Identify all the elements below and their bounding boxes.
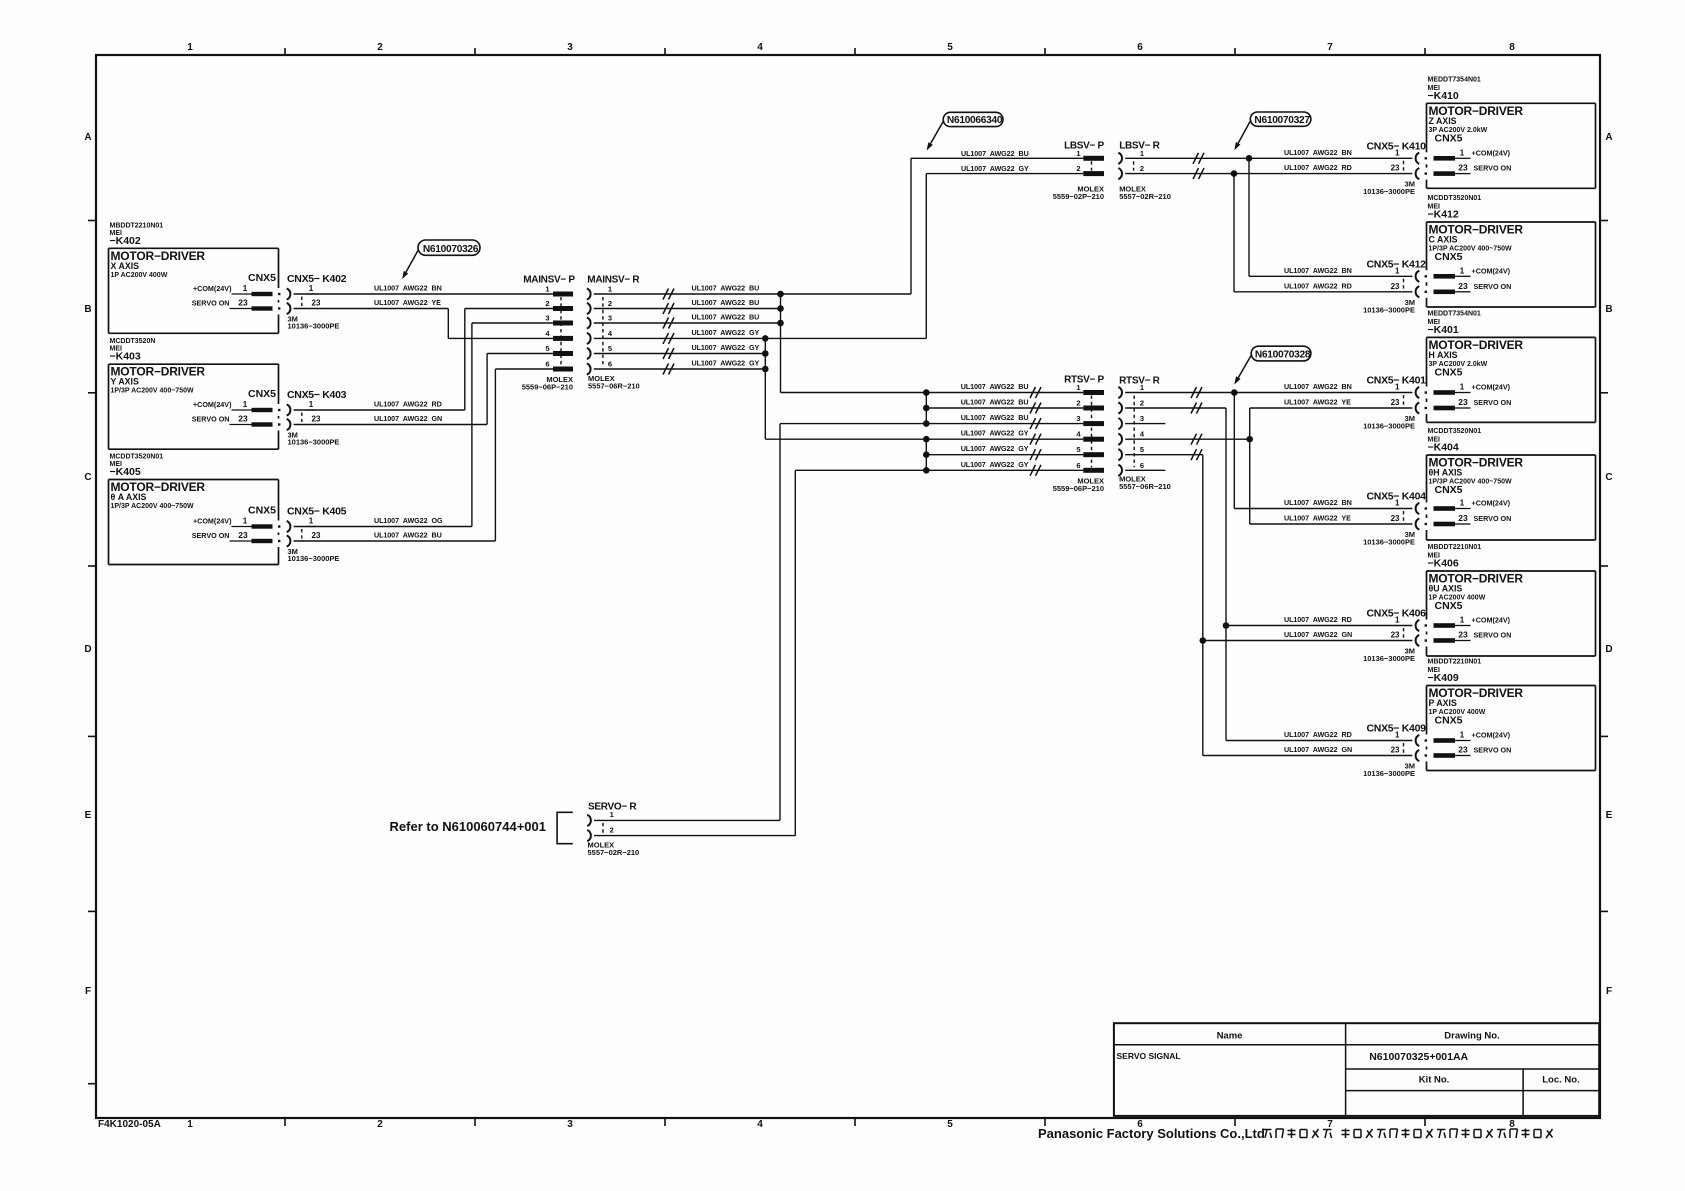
wire MAINSV-R pin3 BU to bus: [594, 313, 781, 329]
motor-driver K404 (θH AXIS): [1425, 428, 1596, 540]
svg-text:F4K1020-05A: F4K1020-05A: [98, 1119, 161, 1130]
svg-text:6: 6: [1137, 42, 1143, 53]
callout N610070327: [1234, 112, 1311, 150]
svg-text:MEDDT7354N01: MEDDT7354N01: [1428, 76, 1481, 83]
svg-text:6: 6: [608, 360, 612, 369]
svg-text:UL1007 AWG22 BU: UL1007 AWG22 BU: [961, 413, 1029, 422]
wire SERVO-R pin1 riser to RTSV-P pin3: [594, 424, 926, 821]
svg-text:2: 2: [1140, 399, 1144, 408]
svg-text:UL1007 AWG22 BN: UL1007 AWG22 BN: [1284, 266, 1352, 275]
svg-text:MBDDT2210N01: MBDDT2210N01: [110, 222, 164, 229]
svg-text:SERVO ON: SERVO ON: [1474, 164, 1512, 173]
svg-text:5557−06R−210: 5557−06R−210: [588, 382, 640, 391]
svg-text:UL1007 AWG22 GY: UL1007 AWG22 GY: [692, 359, 760, 368]
wire K402 pin1 BN to MAINSV-P pin1: [294, 284, 553, 295]
riser to LBSV-P pin1: [911, 149, 1083, 294]
bus GY vertical (MAINSV pins 4-6) and feed to RTSV-P pin4: [762, 335, 926, 439]
svg-text:A: A: [1605, 132, 1612, 143]
svg-text:3: 3: [545, 314, 549, 323]
connector CNX5-K405: [287, 506, 347, 564]
svg-text:4: 4: [757, 42, 763, 53]
svg-text:CNX5: CNX5: [1435, 715, 1463, 727]
svg-text:3: 3: [1076, 414, 1080, 423]
svg-text:θU AXIS: θU AXIS: [1429, 584, 1463, 594]
svg-text:+COM(24V): +COM(24V): [193, 400, 232, 409]
svg-text:Drawing No.: Drawing No.: [1444, 1030, 1499, 1041]
svg-text:UL1007 AWG22 GN: UL1007 AWG22 GN: [1284, 745, 1352, 754]
svg-text:C: C: [1605, 472, 1612, 483]
wire MAINSV-R pin2 BU to bus: [594, 298, 781, 314]
svg-text:CNX5: CNX5: [1435, 600, 1463, 612]
wire MAINSV-R pin5 GY to bus: [594, 343, 766, 359]
svg-text:1P/3P AC200V 400~750W: 1P/3P AC200V 400~750W: [111, 388, 194, 395]
svg-text:5: 5: [1076, 445, 1080, 454]
wire MAINSV-R pin1 BU to LBSV riser: [594, 284, 911, 300]
svg-text:+COM(24V): +COM(24V): [193, 517, 232, 526]
column reference numbers bottom: [187, 1118, 1515, 1130]
svg-text:UL1007 AWG22 BN: UL1007 AWG22 BN: [374, 284, 442, 293]
motor-driver K412 (C AXIS): [1425, 195, 1596, 307]
svg-text:1: 1: [243, 284, 248, 293]
svg-text:23: 23: [1458, 745, 1468, 755]
svg-text:5: 5: [545, 344, 549, 353]
svg-text:MEDDT7354N01: MEDDT7354N01: [1428, 310, 1481, 317]
svg-text:10136−3000PE: 10136−3000PE: [1363, 305, 1415, 314]
svg-text:10136−3000PE: 10136−3000PE: [1363, 422, 1415, 431]
svg-text:UL1007 AWG22 YE: UL1007 AWG22 YE: [1284, 398, 1351, 407]
svg-text:UL1007 AWG22 RD: UL1007 AWG22 RD: [1284, 163, 1352, 172]
svg-text:B: B: [1605, 304, 1612, 315]
svg-text:23: 23: [1391, 631, 1400, 640]
wire labels into CNX5-K412: [1284, 266, 1352, 291]
svg-text:6: 6: [1140, 461, 1144, 470]
svg-text:23: 23: [238, 414, 248, 424]
RTSV feed bus A (pins 1-3) with junctions: [923, 389, 1083, 427]
wire RTSV-R pin4 junction feeding K401 pin23 and K404 pin23: [1125, 408, 1412, 524]
svg-text:5: 5: [947, 1119, 953, 1130]
svg-text:6: 6: [545, 360, 549, 369]
svg-text:1: 1: [1395, 148, 1400, 157]
wire MAINSV-R pin4 GY to LBSV riser 2: [594, 328, 927, 344]
svg-text:+COM(24V): +COM(24V): [1472, 731, 1511, 740]
svg-text:UL1007 AWG22 BN: UL1007 AWG22 BN: [1284, 148, 1352, 157]
motor-driver K406 (θU AXIS): [1425, 544, 1596, 656]
svg-text:10136−3000PE: 10136−3000PE: [288, 322, 340, 331]
svg-text:RTSV− P: RTSV− P: [1064, 375, 1104, 386]
svg-text:Refer to N610060744+001: Refer to N610060744+001: [390, 819, 546, 834]
svg-text:UL1007 AWG22 BU: UL1007 AWG22 BU: [961, 149, 1029, 158]
connector CNX5-K402: [287, 273, 347, 331]
svg-text:23: 23: [238, 298, 248, 308]
RTSV-P feed wire labels and continuation marks: [961, 382, 1041, 476]
svg-text:UL1007 AWG22 BU: UL1007 AWG22 BU: [692, 298, 760, 307]
svg-text:1: 1: [309, 284, 314, 293]
wire K403 pin1 RD riser to MAINSV-P pin2: [294, 309, 553, 411]
svg-text:−K412: −K412: [1428, 209, 1459, 221]
wire MAINSV-R pin6 GY to bus: [594, 359, 766, 375]
wire RTSV-R pin3 stub: [1125, 423, 1165, 425]
svg-text:1: 1: [1076, 149, 1080, 158]
svg-text:UL1007 AWG22 GY: UL1007 AWG22 GY: [961, 460, 1029, 469]
svg-text:X AXIS: X AXIS: [111, 261, 140, 271]
svg-text:10136−3000PE: 10136−3000PE: [1363, 187, 1415, 196]
svg-text:3: 3: [567, 1119, 573, 1130]
svg-text:UL1007 AWG22 BN: UL1007 AWG22 BN: [1284, 498, 1352, 507]
svg-text:23: 23: [312, 415, 321, 424]
svg-text:8: 8: [1509, 42, 1515, 53]
svg-text:UL1007 AWG22 BN: UL1007 AWG22 BN: [1284, 382, 1352, 391]
sheet number F4K1020-05A: [98, 1119, 161, 1130]
svg-text:10136−3000PE: 10136−3000PE: [288, 554, 340, 563]
bracket and note Refer to N610060744+001: [390, 812, 573, 843]
svg-text:1: 1: [1076, 383, 1080, 392]
svg-text:A: A: [84, 132, 91, 143]
wire LBSV-R pin1 to K410 pin1 with branch to K412: [1125, 153, 1412, 276]
motor-driver K405 (θ A AXIS): [109, 454, 281, 565]
svg-text:1: 1: [1460, 266, 1465, 275]
svg-text:UL1007 AWG22 OG: UL1007 AWG22 OG: [374, 516, 443, 525]
svg-text:5559−06P−210: 5559−06P−210: [1053, 484, 1104, 493]
svg-text:MBDDT2210N01: MBDDT2210N01: [1428, 659, 1482, 666]
svg-text:23: 23: [1458, 630, 1468, 640]
svg-text:1: 1: [1460, 731, 1465, 740]
svg-text:23: 23: [1458, 163, 1468, 173]
svg-text:1: 1: [1395, 731, 1400, 740]
connector MAINSV-R (MOLEX 5557-06R-210): [587, 275, 641, 391]
svg-text:MAINSV− R: MAINSV− R: [587, 275, 640, 286]
svg-text:1: 1: [1140, 149, 1144, 158]
svg-text:1: 1: [1460, 383, 1465, 392]
svg-text:UL1007 AWG22 BU: UL1007 AWG22 BU: [692, 284, 760, 293]
connector CNX5-K404: [1363, 491, 1426, 547]
svg-text:UL1007 AWG22 BU: UL1007 AWG22 BU: [374, 531, 442, 540]
svg-text:C AXIS: C AXIS: [1429, 235, 1458, 245]
svg-text:D: D: [1605, 644, 1612, 655]
svg-text:1: 1: [610, 810, 614, 819]
callout N610066340: [927, 112, 1003, 150]
svg-text:UL1007 AWG22 BU: UL1007 AWG22 BU: [961, 382, 1029, 391]
svg-text:6: 6: [1076, 461, 1080, 470]
svg-text:θ A AXIS: θ A AXIS: [111, 492, 147, 502]
svg-text:+COM(24V): +COM(24V): [1472, 148, 1511, 157]
svg-text:SERVO ON: SERVO ON: [1474, 631, 1512, 640]
svg-text:Kit No.: Kit No.: [1419, 1074, 1450, 1085]
callout N610070328: [1234, 346, 1311, 384]
connector RTSV-P (MOLEX 5559-06P-210): [1053, 375, 1105, 493]
svg-text:1P AC200V 400W: 1P AC200V 400W: [111, 272, 168, 279]
svg-text:7: 7: [1327, 42, 1333, 53]
svg-text:UL1007 AWG22 GY: UL1007 AWG22 GY: [961, 429, 1029, 438]
svg-text:UL1007 AWG22 YE: UL1007 AWG22 YE: [374, 298, 441, 307]
svg-text:SERVO ON: SERVO ON: [1474, 398, 1512, 407]
svg-text:CNX5: CNX5: [248, 272, 276, 284]
svg-text:θH AXIS: θH AXIS: [1429, 468, 1463, 478]
svg-text:2: 2: [1140, 164, 1144, 173]
svg-text:23: 23: [1391, 398, 1400, 407]
svg-text:CNX5: CNX5: [1435, 484, 1463, 496]
svg-text:23: 23: [1391, 514, 1400, 523]
svg-text:MCDDT3520N: MCDDT3520N: [110, 338, 156, 345]
callout N610070326: [402, 240, 480, 279]
svg-text:3: 3: [1140, 414, 1144, 423]
svg-text:−K403: −K403: [110, 351, 141, 363]
svg-text:C: C: [84, 472, 91, 483]
svg-text:2: 2: [377, 42, 383, 53]
svg-text:23: 23: [312, 299, 321, 308]
svg-text:SERVO ON: SERVO ON: [192, 531, 230, 540]
svg-text:2: 2: [545, 299, 549, 308]
svg-text:10136−3000PE: 10136−3000PE: [1363, 769, 1415, 778]
wire labels into CNX5-K406: [1284, 615, 1352, 639]
svg-text:2: 2: [1076, 164, 1080, 173]
svg-text:−K410: −K410: [1428, 90, 1459, 102]
svg-text:+COM(24V): +COM(24V): [1472, 383, 1511, 392]
svg-text:CNX5− K402: CNX5− K402: [287, 273, 347, 285]
svg-text:Panasonic Factory Solutions Co: Panasonic Factory Solutions Co.,Ltd: [1038, 1126, 1265, 1141]
svg-text:3: 3: [567, 42, 573, 53]
svg-text:P AXIS: P AXIS: [1429, 698, 1457, 708]
wire labels into CNX5-K409: [1284, 730, 1352, 754]
svg-text:UL1007 AWG22 RD: UL1007 AWG22 RD: [1284, 615, 1352, 624]
svg-text:SERVO ON: SERVO ON: [1474, 282, 1512, 291]
svg-text:N610070326: N610070326: [423, 244, 479, 255]
svg-text:UL1007 AWG22 RD: UL1007 AWG22 RD: [1284, 281, 1352, 290]
connector CNX5-K403: [287, 389, 347, 447]
svg-text:1P/3P AC200V 400~750W: 1P/3P AC200V 400~750W: [111, 503, 194, 510]
svg-text:1: 1: [243, 400, 248, 409]
wire LBSV-R pin2 to K410 pin23 with branch to K412: [1125, 168, 1412, 292]
row reference letters right: [1600, 132, 1613, 997]
svg-text:4: 4: [757, 1119, 763, 1130]
connector MAINSV-P (MOLEX 5559-06P-210): [522, 275, 576, 392]
svg-text:SERVO ON: SERVO ON: [192, 415, 230, 424]
connector CNX5-K401: [1363, 375, 1426, 431]
motor-driver K401 (H AXIS): [1425, 310, 1596, 422]
drawing border frame: [96, 55, 1600, 1118]
svg-text:B: B: [84, 304, 91, 315]
svg-text:LBSV− P: LBSV− P: [1064, 141, 1104, 152]
svg-text:Loc. No.: Loc. No.: [1542, 1074, 1579, 1085]
svg-text:5559−06P−210: 5559−06P−210: [522, 383, 573, 392]
svg-text:10136−3000PE: 10136−3000PE: [1363, 654, 1415, 663]
svg-text:1: 1: [1460, 616, 1465, 625]
svg-text:1: 1: [1395, 616, 1400, 625]
connector LBSV-P (MOLEX 5559-02P-210): [1053, 141, 1105, 201]
svg-text:5: 5: [608, 344, 612, 353]
svg-text:CNX5− K403: CNX5− K403: [287, 389, 347, 401]
wire K405 pin23 BU riser to MAINSV-P pin6: [294, 369, 553, 541]
svg-text:CNX5: CNX5: [1435, 367, 1463, 379]
svg-text:UL1007 AWG22 RD: UL1007 AWG22 RD: [1284, 730, 1352, 739]
svg-text:1: 1: [1140, 383, 1144, 392]
svg-text:5557−02R−210: 5557−02R−210: [588, 848, 640, 857]
svg-text:1: 1: [1395, 499, 1400, 508]
svg-text:MCDDT3520N01: MCDDT3520N01: [1428, 195, 1482, 202]
connector LBSV-R (MOLEX 5557-02R-210): [1118, 141, 1171, 201]
svg-text:N610070325+001AA: N610070325+001AA: [1369, 1051, 1468, 1063]
svg-text:N610066340: N610066340: [947, 115, 1003, 126]
connector SERVO-R (MOLEX 5557-02R-210): [587, 802, 639, 858]
svg-text:UL1007 AWG22 BU: UL1007 AWG22 BU: [692, 313, 760, 322]
svg-text:SERVO SIGNAL: SERVO SIGNAL: [1117, 1051, 1181, 1061]
svg-text:1: 1: [1460, 499, 1465, 508]
svg-text:+COM(24V): +COM(24V): [193, 284, 232, 293]
svg-text:3: 3: [608, 314, 612, 323]
svg-text:1: 1: [1460, 148, 1465, 157]
wire RTSV-R pin6 stub: [1125, 469, 1165, 471]
svg-text:1: 1: [243, 517, 248, 526]
svg-text:CNX5: CNX5: [248, 388, 276, 400]
svg-text:1: 1: [545, 285, 549, 294]
svg-text:SERVO ON: SERVO ON: [1474, 746, 1512, 755]
svg-text:2: 2: [377, 1119, 383, 1130]
svg-text:23: 23: [1391, 282, 1400, 291]
svg-text:UL1007 AWG22 BU: UL1007 AWG22 BU: [961, 398, 1029, 407]
motor-driver K409 (P AXIS): [1425, 659, 1596, 771]
svg-text:N610070328: N610070328: [1255, 350, 1311, 361]
connector CNX5-K412: [1363, 258, 1426, 314]
bus BU vertical (MAINSV pins 1-3) and feed to RTSV-P pin1: [777, 291, 926, 393]
svg-text:23: 23: [1391, 164, 1400, 173]
svg-text:UL1007 AWG22 YE: UL1007 AWG22 YE: [1284, 514, 1351, 523]
svg-text:MCDDT3520N01: MCDDT3520N01: [1428, 428, 1482, 435]
svg-text:23: 23: [1458, 513, 1468, 523]
wire SERVO-R pin2 riser to RTSV-P pin6: [594, 470, 926, 835]
svg-text:H AXIS: H AXIS: [1429, 350, 1458, 360]
svg-text:5: 5: [1140, 445, 1144, 454]
wire labels into CNX5-K404: [1284, 498, 1352, 523]
wire RTSV-R pin2 down to K406 pin1 and K409 pin1: [1125, 403, 1412, 741]
svg-text:E: E: [85, 810, 92, 821]
wire K405 pin1 OG riser to MAINSV-P pin3: [294, 323, 553, 527]
svg-text:D: D: [84, 644, 91, 655]
svg-text:1: 1: [1395, 266, 1400, 275]
svg-text:CNX5: CNX5: [248, 505, 276, 517]
svg-text:CNX5− K405: CNX5− K405: [287, 506, 347, 518]
motor-driver K402 (X AXIS): [109, 222, 281, 333]
svg-text:23: 23: [1458, 397, 1468, 407]
svg-text:CNX5: CNX5: [1435, 251, 1463, 263]
svg-text:2: 2: [610, 825, 614, 834]
svg-text:E: E: [1606, 810, 1613, 821]
column reference numbers top: [187, 42, 1515, 55]
svg-text:−K404: −K404: [1428, 442, 1459, 454]
svg-text:Z AXIS: Z AXIS: [1429, 116, 1457, 126]
svg-text:UL1007 AWG22 GN: UL1007 AWG22 GN: [1284, 630, 1352, 639]
svg-text:1: 1: [187, 42, 193, 53]
svg-text:1: 1: [608, 285, 612, 294]
svg-text:+COM(24V): +COM(24V): [1472, 266, 1511, 275]
svg-text:SERVO ON: SERVO ON: [192, 299, 230, 308]
connector CNX5-K410: [1363, 140, 1426, 196]
footer company name: [1038, 1126, 1553, 1141]
svg-text:F: F: [85, 986, 91, 997]
svg-text:UL1007 AWG22 GY: UL1007 AWG22 GY: [961, 444, 1029, 453]
svg-text:N610070327: N610070327: [1254, 115, 1310, 126]
svg-text:UL1007 AWG22 GY: UL1007 AWG22 GY: [692, 343, 760, 352]
svg-text:+COM(24V): +COM(24V): [1472, 499, 1511, 508]
svg-text:1: 1: [309, 517, 314, 526]
wire K403 pin23 GN riser to MAINSV-P pin5: [294, 354, 553, 425]
svg-text:1: 1: [1395, 383, 1400, 392]
svg-text:UL1007 AWG22 GY: UL1007 AWG22 GY: [692, 328, 760, 337]
svg-text:23: 23: [312, 531, 321, 540]
svg-text:23: 23: [1391, 746, 1400, 755]
svg-text:UL1007 AWG22 GN: UL1007 AWG22 GN: [374, 414, 442, 423]
svg-text:5557−06R−210: 5557−06R−210: [1119, 482, 1171, 491]
svg-text:−K409: −K409: [1428, 672, 1459, 684]
wire RTSV-R pin1 to K401 pin1 with branch to K404 pin1: [1125, 387, 1412, 509]
svg-text:2: 2: [608, 299, 612, 308]
svg-text:UL1007 AWG22 RD: UL1007 AWG22 RD: [374, 400, 442, 409]
svg-text:−K402: −K402: [110, 235, 141, 247]
svg-text:UL1007 AWG22 GY: UL1007 AWG22 GY: [961, 164, 1029, 173]
svg-text:1: 1: [309, 400, 314, 409]
connector CNX5-K409: [1363, 723, 1426, 779]
svg-text:MBDDT2210N01: MBDDT2210N01: [1428, 544, 1482, 551]
svg-text:MCDDT3520N01: MCDDT3520N01: [110, 454, 164, 461]
svg-text:SERVO ON: SERVO ON: [1474, 514, 1512, 523]
RTSV feed bus B (pins 4-6) with junctions: [923, 436, 1083, 474]
svg-text:5559−02P−210: 5559−02P−210: [1053, 192, 1104, 201]
svg-text:−K405: −K405: [110, 466, 141, 478]
svg-text:5557−02R−210: 5557−02R−210: [1119, 192, 1171, 201]
wire K402 pin23 YE jog down to MAINSV-P pin4: [294, 298, 553, 338]
svg-text:F: F: [1606, 986, 1612, 997]
svg-text:5: 5: [947, 42, 953, 53]
riser to LBSV-P pin2: [926, 164, 1083, 338]
motor-driver K410 (Z AXIS): [1425, 76, 1596, 188]
svg-text:Name: Name: [1217, 1030, 1243, 1041]
svg-text:10136−3000PE: 10136−3000PE: [1363, 538, 1415, 547]
connector RTSV-R (MOLEX 5557-06R-210): [1118, 376, 1171, 492]
svg-text:CNX5: CNX5: [1435, 133, 1463, 145]
svg-text:Y AXIS: Y AXIS: [111, 377, 139, 387]
svg-text:23: 23: [1458, 281, 1468, 291]
wire RTSV-R pin5 down to K406 pin23 and K409 pin23: [1125, 449, 1412, 755]
svg-text:−K406: −K406: [1428, 558, 1459, 570]
wire labels into CNX5-K410: [1284, 148, 1352, 172]
svg-text:23: 23: [238, 530, 248, 540]
svg-text:2: 2: [1076, 399, 1080, 408]
svg-text:7: 7: [1327, 1119, 1333, 1130]
title block: [1114, 1023, 1599, 1116]
svg-text:1: 1: [187, 1119, 193, 1130]
motor-driver K403 (Y AXIS): [109, 338, 281, 449]
svg-text:−K401: −K401: [1428, 324, 1459, 336]
row reference letters left: [84, 132, 96, 1084]
svg-text:10136−3000PE: 10136−3000PE: [288, 438, 340, 447]
connector CNX5-K406: [1363, 608, 1426, 664]
svg-text:+COM(24V): +COM(24V): [1472, 616, 1511, 625]
wire labels into CNX5-K401: [1284, 382, 1352, 407]
